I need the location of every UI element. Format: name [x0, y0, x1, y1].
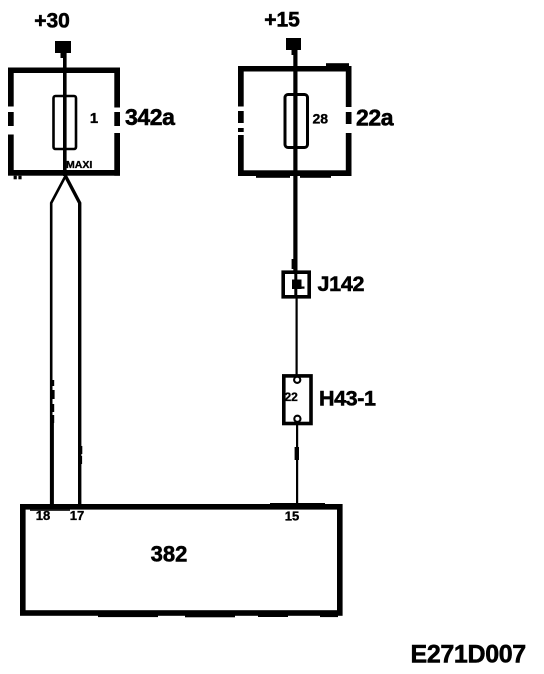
label 382	[151, 542, 188, 567]
svg-text:22: 22	[285, 390, 299, 404]
terminal +30	[55, 41, 71, 58]
node +15	[264, 9, 300, 32]
svg-text:28: 28	[313, 111, 329, 127]
svg-text:382: 382	[151, 542, 188, 567]
pin label 1	[90, 110, 98, 127]
node +30	[34, 10, 70, 33]
connector H43-1	[284, 376, 311, 424]
svg-text:1: 1	[90, 110, 98, 127]
fuse box 22a	[238, 63, 352, 178]
fuse 28 element	[285, 95, 308, 148]
pin 18	[36, 508, 50, 523]
pin label 28	[313, 111, 329, 127]
svg-text:22a: 22a	[356, 105, 394, 131]
label 342a	[125, 104, 175, 130]
pin 17	[70, 508, 84, 523]
terminal +15	[286, 38, 301, 55]
svg-text:18: 18	[36, 508, 50, 523]
label J142	[318, 272, 365, 296]
svg-text:+15: +15	[264, 9, 300, 32]
wire from terminal +30 through fuse 1 to bottom of holder 342a	[63, 50, 67, 176]
label E271D007	[411, 641, 526, 669]
label H43-1	[319, 387, 376, 411]
label MAXI	[66, 159, 92, 171]
svg-text:MAXI: MAXI	[66, 159, 92, 171]
wire from terminal +15 through fuse 28 to connector J142	[292, 47, 298, 271]
wire from fuse 342a to pin 18 (left branch of split)	[51, 176, 66, 506]
wire from fuse 342a to pin 17 (right branch of split)	[66, 176, 83, 506]
fuse 1 (MAXI) element	[54, 96, 77, 149]
svg-text:H43-1: H43-1	[319, 387, 376, 411]
svg-text:+30: +30	[34, 10, 70, 33]
control unit 382	[23, 503, 340, 617]
fuse box 342a	[8, 68, 120, 180]
wire from J142 to H43-1	[296, 297, 298, 375]
svg-text:15: 15	[285, 509, 299, 524]
pin 15	[285, 509, 299, 524]
label 22a	[356, 105, 394, 131]
pin label 22 on H43-1	[285, 390, 299, 404]
svg-text:E271D007: E271D007	[411, 641, 526, 669]
svg-text:342a: 342a	[125, 104, 175, 130]
svg-text:J142: J142	[318, 272, 365, 296]
connector J142	[283, 271, 309, 298]
svg-text:17: 17	[70, 508, 84, 523]
wire from H43-1 to pin 15	[295, 423, 299, 506]
